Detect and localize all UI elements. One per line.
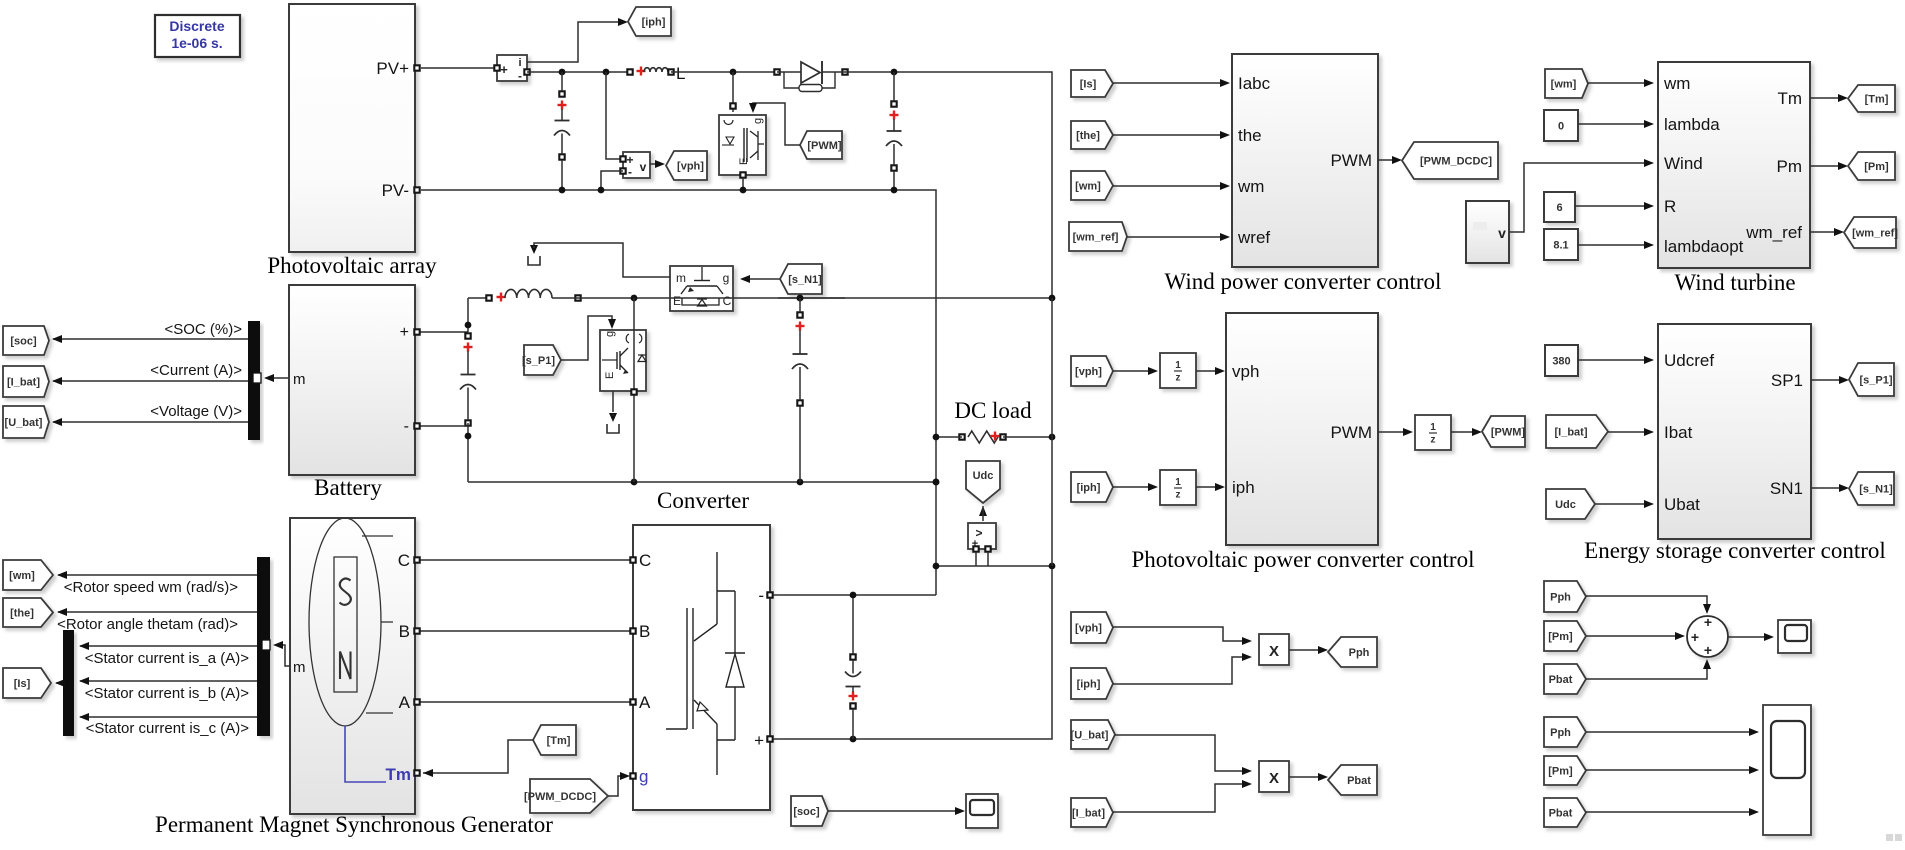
svg-text:g: g [723, 271, 730, 285]
svg-text:[vph]: [vph] [677, 161, 704, 173]
svg-text:Pm: Pm [1777, 157, 1803, 176]
svg-text:380: 380 [1552, 356, 1570, 368]
svg-text:[soc]: [soc] [10, 336, 37, 348]
svg-text:Udc: Udc [1555, 499, 1576, 511]
svg-text:C: C [639, 551, 651, 570]
svg-text:Udc: Udc [973, 470, 994, 482]
svg-text:SN1: SN1 [1770, 479, 1803, 498]
svg-text:PV-: PV- [382, 181, 409, 200]
svg-text:[Is]: [Is] [14, 678, 31, 690]
svg-text:SP1: SP1 [1771, 371, 1803, 390]
svg-text:Photovoltaic array: Photovoltaic array [267, 253, 437, 278]
svg-text:C: C [723, 294, 732, 308]
svg-text:Pbat: Pbat [1549, 808, 1573, 820]
svg-text:m: m [293, 371, 306, 388]
svg-text:L: L [676, 64, 685, 83]
svg-text:[iph]: [iph] [1077, 679, 1101, 691]
svg-text:[the]: [the] [1076, 130, 1100, 142]
svg-text:Discrete: Discrete [169, 18, 224, 34]
svg-text:1: 1 [1175, 477, 1181, 488]
svg-text:Battery: Battery [314, 475, 382, 500]
svg-text:1: 1 [1175, 360, 1181, 371]
svg-text:[vph]: [vph] [1075, 366, 1102, 378]
svg-text:+: + [1704, 642, 1712, 658]
svg-text:Permanent Magnet Synchronous G: Permanent Magnet Synchronous Generator [155, 812, 553, 837]
svg-text:z: z [1176, 490, 1181, 501]
svg-text:Wind turbine: Wind turbine [1674, 270, 1795, 295]
svg-text:Wind: Wind [1664, 154, 1703, 173]
svg-text:[I_bat]: [I_bat] [7, 377, 40, 389]
svg-text:[s_N1]: [s_N1] [1859, 484, 1893, 496]
svg-text:the: the [1238, 126, 1262, 145]
svg-text:[Tm]: [Tm] [1865, 94, 1889, 106]
svg-text:[s_N1]: [s_N1] [788, 274, 822, 286]
svg-text:DC load: DC load [954, 398, 1032, 423]
svg-text:+: + [500, 62, 508, 77]
svg-text:<Rotor angle thetam (rad)>: <Rotor angle thetam (rad)> [57, 616, 238, 633]
svg-text:<Voltage (V)>: <Voltage (V)> [150, 403, 242, 420]
svg-text:R: R [1664, 197, 1676, 216]
svg-text:C: C [398, 551, 410, 570]
svg-text:6: 6 [1556, 202, 1562, 214]
svg-text:[wm]: [wm] [1551, 79, 1577, 91]
svg-text:<Stator current is_a (A)>: <Stator current is_a (A)> [85, 650, 249, 667]
svg-text:[PWM_DCDC]: [PWM_DCDC] [524, 791, 596, 803]
svg-text:Udcref: Udcref [1664, 351, 1714, 370]
svg-text:Ibat: Ibat [1664, 423, 1693, 442]
svg-text:[iph]: [iph] [1077, 482, 1101, 494]
svg-text:Pbat: Pbat [1549, 674, 1573, 686]
svg-text:Converter: Converter [657, 488, 749, 513]
svg-text:+: + [754, 731, 764, 750]
svg-text:g: g [604, 331, 616, 337]
svg-text:Pbat: Pbat [1347, 775, 1371, 787]
svg-text:wm_ref: wm_ref [1745, 223, 1802, 242]
svg-text:-: - [628, 165, 632, 179]
svg-text:<Stator current is_c (A)>: <Stator current is_c (A)> [86, 720, 250, 737]
svg-text:B: B [399, 622, 410, 641]
svg-text:+: + [1704, 614, 1712, 630]
svg-text:[U_bat]: [U_bat] [5, 417, 43, 429]
svg-text:<Rotor speed wm (rad/s)>: <Rotor speed wm (rad/s)> [64, 579, 238, 596]
svg-text:[iph]: [iph] [642, 17, 666, 29]
svg-text:[soc]: [soc] [793, 806, 820, 818]
svg-text:vph: vph [1232, 362, 1259, 381]
svg-text:[Pm]: [Pm] [1548, 766, 1573, 778]
svg-text:Tm: Tm [386, 765, 412, 784]
svg-text:Tm: Tm [1777, 89, 1802, 108]
svg-text:g: g [639, 767, 648, 786]
svg-text:[Is]: [Is] [1080, 79, 1097, 91]
svg-text:<Current (A)>: <Current (A)> [150, 362, 242, 379]
svg-text:Pph: Pph [1550, 592, 1571, 604]
svg-text:+: + [400, 324, 409, 341]
svg-text:z: z [1431, 435, 1436, 446]
svg-text:-: - [404, 418, 409, 435]
svg-text:wm: wm [1663, 74, 1690, 93]
svg-text:lambdaopt: lambdaopt [1664, 237, 1744, 256]
svg-text:i: i [518, 57, 521, 69]
svg-text:+: + [1691, 629, 1699, 645]
svg-text:[wm]: [wm] [9, 570, 35, 582]
svg-text:v: v [640, 160, 647, 174]
svg-text:wref: wref [1237, 228, 1270, 247]
svg-text:z: z [1176, 373, 1181, 384]
svg-text:[s_P1]: [s_P1] [522, 355, 555, 367]
svg-text:[wm_ref]: [wm_ref] [1073, 232, 1119, 244]
svg-text:1e-06 s.: 1e-06 s. [171, 35, 222, 51]
svg-text:g: g [752, 118, 764, 124]
svg-text:iph: iph [1232, 478, 1255, 497]
svg-text:m: m [293, 659, 306, 676]
svg-text:Ubat: Ubat [1664, 495, 1700, 514]
svg-text:Energy storage converter contr: Energy storage converter control [1584, 538, 1886, 563]
svg-text:Wind power converter control: Wind power converter control [1165, 269, 1442, 294]
svg-text:E: E [673, 294, 681, 308]
svg-text:[wm_ref]: [wm_ref] [1852, 228, 1898, 240]
svg-text:E: E [604, 372, 616, 379]
svg-text:1: 1 [1430, 422, 1436, 433]
svg-text:-: - [758, 586, 764, 605]
svg-text:[I_bat]: [I_bat] [1555, 427, 1588, 439]
svg-text:[U_bat]: [U_bat] [1071, 730, 1109, 742]
svg-text:B: B [639, 622, 650, 641]
svg-text:0: 0 [1558, 121, 1564, 133]
svg-text:X: X [1269, 643, 1279, 660]
svg-text:[Pm]: [Pm] [1864, 161, 1889, 173]
svg-text:<Stator current is_b (A)>: <Stator current is_b (A)> [85, 685, 249, 702]
svg-text:[Pm]: [Pm] [1548, 631, 1573, 643]
svg-text:[wm]: [wm] [1075, 181, 1101, 193]
svg-text:Iabc: Iabc [1238, 74, 1271, 93]
svg-text:Photovoltaic power converter c: Photovoltaic power converter control [1132, 547, 1475, 572]
svg-text:Pph: Pph [1550, 727, 1571, 739]
svg-text:[I_bat]: [I_bat] [1072, 808, 1105, 820]
svg-text:[PWM]: [PWM] [807, 140, 842, 152]
svg-text:PWM: PWM [1330, 151, 1372, 170]
svg-text:lambda: lambda [1664, 115, 1720, 134]
svg-text:[the]: [the] [10, 608, 34, 620]
svg-text:[s_P1]: [s_P1] [1859, 375, 1892, 387]
svg-text:wm: wm [1237, 177, 1264, 196]
svg-text:v: v [1498, 225, 1506, 241]
svg-text:PWM: PWM [1330, 423, 1372, 442]
svg-text:[Tm]: [Tm] [547, 735, 571, 747]
svg-text:PV+: PV+ [376, 59, 409, 78]
svg-text:A: A [399, 693, 411, 712]
svg-text:<SOC (%)>: <SOC (%)> [164, 321, 242, 338]
svg-text:8.1: 8.1 [1553, 240, 1568, 252]
svg-text:m: m [676, 271, 686, 285]
svg-text:A: A [639, 693, 651, 712]
svg-text:-: - [518, 69, 522, 83]
svg-text:X: X [1269, 770, 1279, 787]
svg-text:[vph]: [vph] [1075, 623, 1102, 635]
svg-text:Pph: Pph [1349, 647, 1370, 659]
svg-text:[PWM]: [PWM] [1491, 427, 1526, 439]
svg-text:[PWM_DCDC]: [PWM_DCDC] [1420, 156, 1492, 168]
